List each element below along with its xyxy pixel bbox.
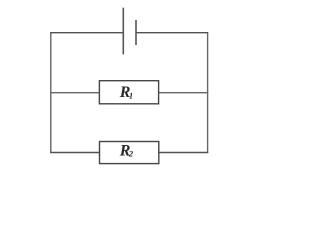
svg-text:1: 1	[129, 91, 133, 101]
svg-text:2: 2	[128, 149, 134, 159]
